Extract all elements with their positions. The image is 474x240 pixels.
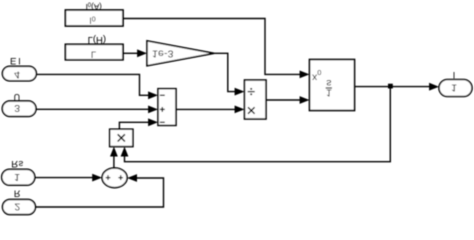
wire inport Rs to sum junction S2: [35, 174, 102, 182]
inport 2 (R): [3, 199, 36, 214]
inport 3 (U): [2, 101, 36, 117]
integrator block 1/s with IC port x0: [310, 60, 355, 111]
svg-text:L: L: [91, 49, 96, 60]
svg-text:U: U: [14, 92, 21, 102]
inport 1 (Rs): [2, 169, 35, 185]
wire inport El to sum S1 port 1: [36, 74, 158, 99]
wire divide to integrator: [266, 96, 310, 104]
label L(H) of constant L: [88, 34, 106, 45]
svg-text:El: El: [10, 55, 22, 66]
wire sum junction S2 to product P1 left input: [110, 147, 118, 168]
svg-text:1e-3: 1e-3: [152, 48, 174, 60]
wire product P1 to sum S1 port 3: [119, 118, 158, 129]
svg-text:1: 1: [326, 87, 332, 98]
svg-text:2: 2: [14, 200, 20, 212]
label R of inport 2: [14, 188, 21, 198]
junction dot on output wire: [388, 84, 393, 89]
sum junction S2 (+ +) round: [102, 168, 127, 188]
label I0(A) of constant I0: [86, 1, 103, 11]
feedback wire from junction to product P1 right input: [121, 87, 391, 162]
divide block D1: [245, 80, 267, 119]
svg-text:1: 1: [451, 82, 457, 94]
wire L to gain: [123, 49, 147, 57]
svg-text:4: 4: [14, 69, 20, 81]
inport 4 (El): [2, 66, 36, 81]
product block P1 (x): [110, 129, 133, 146]
label U of inport 3: [14, 92, 21, 102]
svg-text:3: 3: [14, 102, 20, 114]
svg-text:I: I: [453, 70, 456, 80]
constant block I0: [65, 10, 123, 26]
wire integrator to outport I: [355, 83, 440, 91]
svg-text:1: 1: [14, 171, 20, 183]
svg-text:R: R: [14, 188, 21, 198]
wire I0 to integrator x0 port: [123, 19, 310, 79]
label I of outport 1: [453, 70, 456, 80]
wire inport U to sum S1 port 2: [36, 106, 158, 114]
svg-text:L(H): L(H): [88, 34, 106, 45]
sum block S1 (- + -): [158, 89, 176, 126]
wire gain to divide (divider port): [214, 53, 245, 95]
outport 1 (I): [439, 80, 472, 97]
wire sum S1 to divide (x port): [176, 106, 245, 114]
label El of inport 4: [10, 55, 22, 66]
constant block L: [65, 44, 123, 60]
gain block 1e-3: [147, 41, 214, 66]
wire inport R to sum junction S2 (routed below): [35, 174, 163, 207]
label Rs of inport 1: [11, 158, 23, 169]
svg-text:Rs: Rs: [11, 158, 23, 169]
